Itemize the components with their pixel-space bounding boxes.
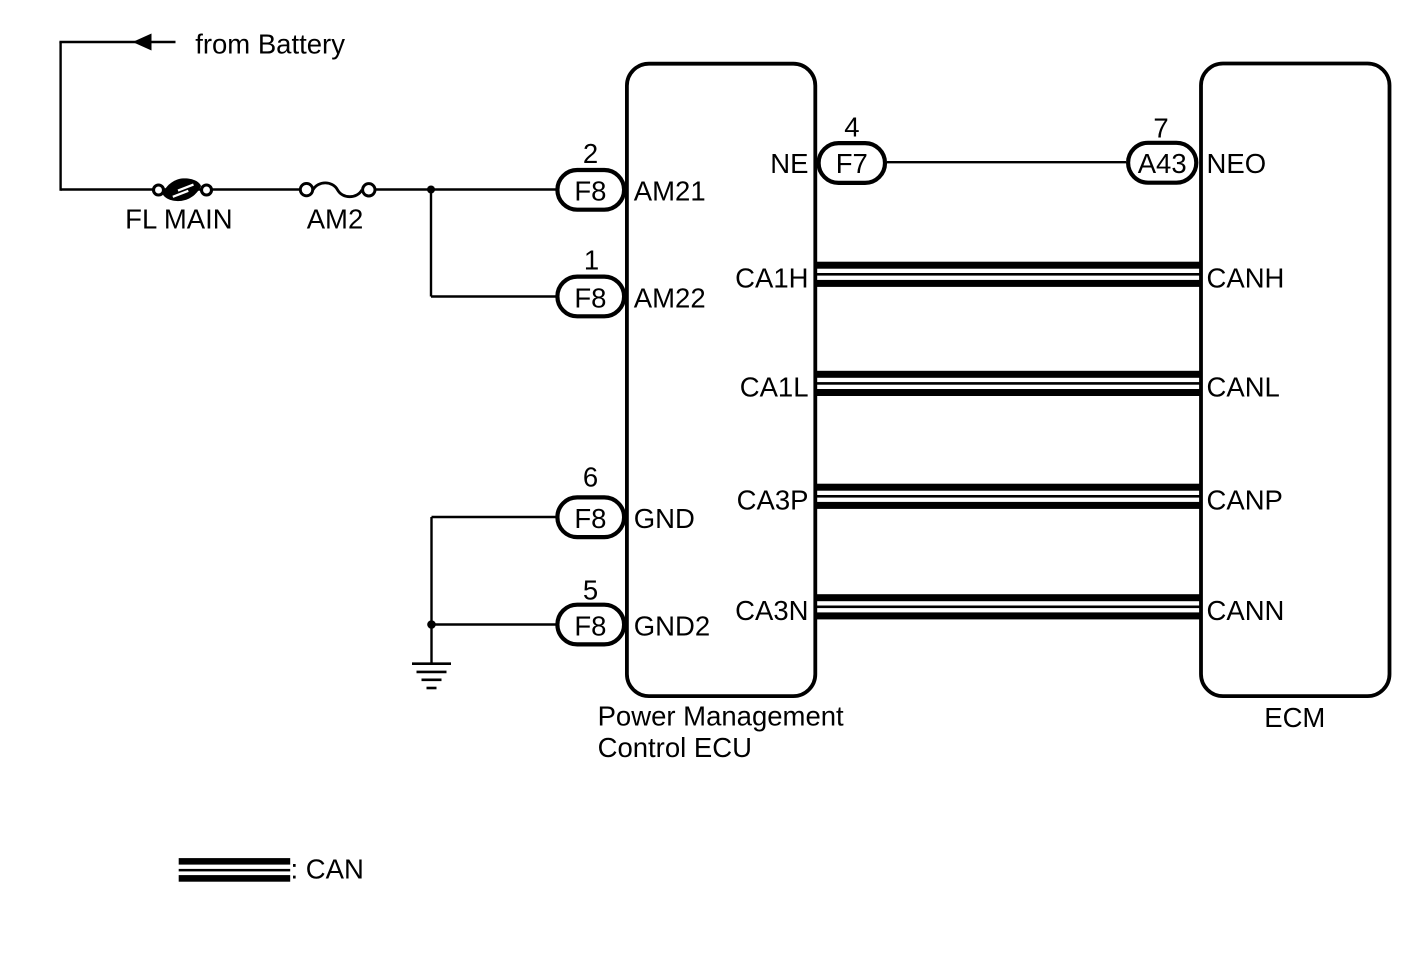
svg-text:CA1L: CA1L	[740, 372, 809, 403]
CAN bus CA1H-CANH	[816, 262, 1201, 287]
svg-text:F8: F8	[574, 503, 606, 534]
svg-text:GND2: GND2	[634, 610, 710, 641]
svg-text:ECM: ECM	[1264, 702, 1325, 733]
svg-text:4: 4	[844, 112, 859, 143]
svg-text:FL MAIN: FL MAIN	[125, 204, 232, 235]
svg-text:CA1H: CA1H	[735, 263, 808, 294]
svg-text:2: 2	[583, 138, 598, 169]
fuse AM2	[300, 183, 375, 197]
CAN bus CA3P-CANP	[816, 484, 1201, 509]
svg-text:CA3P: CA3P	[737, 485, 809, 516]
wire: main feed right segment	[369, 188, 556, 190]
wire: ground riser	[430, 517, 432, 664]
svg-text:AM2: AM2	[307, 204, 364, 235]
wire: NE to NEO	[887, 161, 1126, 163]
svg-text:Control ECU: Control ECU	[598, 732, 752, 763]
svg-text:CANN: CANN	[1207, 595, 1285, 626]
svg-text:CANH: CANH	[1207, 263, 1285, 294]
connector F7 pin 4	[819, 143, 885, 183]
svg-text:5: 5	[583, 575, 598, 606]
connector F8 pin 5	[557, 605, 624, 645]
connector F8 pin 2	[557, 170, 624, 210]
svg-text:GND: GND	[634, 503, 695, 534]
svg-text:AM21: AM21	[634, 175, 706, 206]
wire: GND to ECU	[432, 516, 557, 518]
svg-text:A43: A43	[1138, 148, 1187, 179]
wire: arrow stem to Battery	[59, 41, 175, 43]
connector A43 pin 7	[1128, 143, 1196, 183]
svg-text:CA3N: CA3N	[735, 595, 808, 626]
svg-text:Power Management: Power Management	[598, 701, 844, 732]
ground symbol	[412, 664, 451, 688]
svg-text:from Battery: from Battery	[195, 29, 345, 60]
svg-text:1: 1	[584, 245, 599, 276]
wire: battery feed riser	[59, 42, 61, 191]
junction node at feed split	[427, 186, 435, 194]
wire: into AM22	[431, 295, 556, 297]
ECU box: Power Management Control ECU	[627, 64, 815, 696]
arrowhead pointing to Battery	[133, 34, 152, 51]
svg-text:7: 7	[1153, 113, 1168, 144]
wire: main feed left segment	[61, 188, 306, 190]
svg-text:F8: F8	[574, 175, 606, 206]
svg-text:NEO: NEO	[1207, 148, 1267, 179]
wire: drop to AM22	[430, 190, 432, 297]
wire: GND2 to ECU	[432, 623, 557, 625]
ECM box	[1201, 64, 1390, 697]
junction node at ground split	[427, 620, 436, 629]
svg-text:CANL: CANL	[1207, 372, 1280, 403]
svg-text:AM22: AM22	[634, 282, 706, 313]
svg-text:: CAN: : CAN	[291, 854, 364, 885]
fusible link FL MAIN	[154, 178, 212, 201]
CAN bus CA1L-CANL	[816, 371, 1201, 396]
svg-text:6: 6	[583, 461, 598, 492]
svg-text:F8: F8	[574, 282, 606, 313]
svg-text:CANP: CANP	[1207, 485, 1283, 516]
connector F8 pin 6	[557, 497, 624, 537]
legend: CAN line sample	[179, 858, 291, 882]
svg-text:F7: F7	[836, 148, 868, 179]
svg-text:NE: NE	[770, 148, 808, 179]
CAN bus CA3N-CANN	[816, 594, 1201, 619]
connector F8 pin 1	[557, 277, 624, 317]
svg-text:F8: F8	[574, 610, 606, 641]
